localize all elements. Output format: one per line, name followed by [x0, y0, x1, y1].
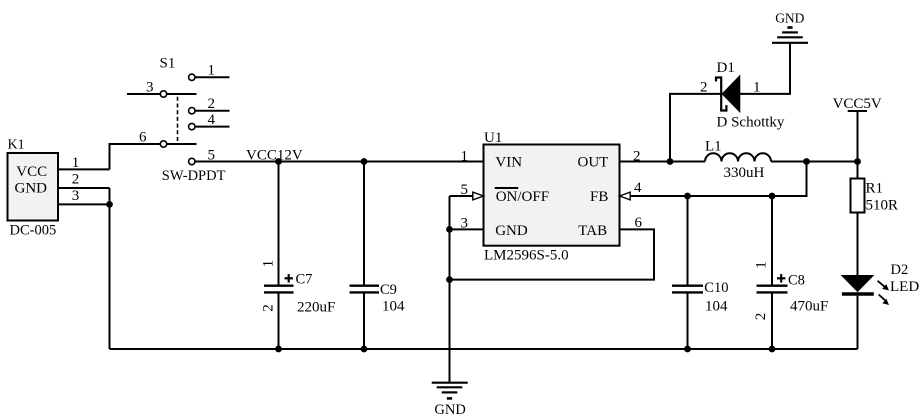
svg-text:2: 2 [72, 172, 80, 188]
wire U1 pin 6 TAB return [450, 215, 655, 280]
svg-text:3: 3 [461, 216, 469, 232]
svg-text:VIN: VIN [495, 154, 522, 170]
resistor R1 [851, 162, 899, 276]
wire L1 to VCC5V node [771, 161, 858, 163]
svg-text:GND: GND [775, 10, 804, 25]
capacitor C10 [672, 196, 728, 349]
connector K1 box [8, 137, 59, 238]
node GND pin junction [446, 226, 453, 233]
K1 pin 2 [58, 172, 110, 188]
S1 pin 6 [160, 141, 166, 147]
wire ground rail [110, 348, 858, 350]
capacitor C9 [350, 162, 406, 350]
U1 pin 2 OUT wire [620, 149, 706, 165]
node K1 pin3 junction [106, 201, 113, 208]
node VCC5V / R1 [854, 158, 861, 165]
U1 pin 4 FB wire [620, 162, 807, 200]
wire K1 pin2/pin3 down to ground rail [109, 188, 111, 349]
node C8 bottom [769, 346, 776, 353]
S1 pin 3 [127, 93, 160, 95]
svg-text:5: 5 [461, 182, 469, 198]
svg-text:D2: D2 [891, 262, 909, 278]
svg-text:R1: R1 [866, 181, 884, 197]
S1 pin 5 [189, 158, 195, 164]
svg-text:OUT: OUT [578, 154, 609, 170]
svg-text:FB: FB [590, 189, 608, 205]
svg-text:L1: L1 [705, 139, 722, 155]
svg-text:C10: C10 [704, 280, 728, 296]
capacitor C8 [753, 196, 828, 349]
svg-text:TAB: TAB [578, 223, 607, 239]
node C10 top [684, 193, 691, 200]
node OUT/D1 junction [667, 158, 674, 165]
svg-text:3: 3 [72, 188, 80, 204]
node C8 top [769, 193, 776, 200]
ground symbol top [772, 10, 808, 43]
svg-text:D1: D1 [717, 60, 735, 76]
K1 pin 1 [58, 155, 110, 171]
node C7 top [275, 158, 282, 165]
S1 pin 1 [189, 74, 195, 80]
S1 pole lever upper [167, 93, 197, 95]
power flag VCC5V [833, 96, 882, 162]
S1 pin 2 [189, 108, 195, 114]
svg-text:104: 104 [705, 299, 728, 315]
S1 pin 4 [189, 123, 195, 129]
LED D2 [842, 262, 920, 349]
svg-text:330uH: 330uH [724, 165, 765, 181]
svg-text:GND: GND [434, 402, 465, 418]
svg-text:2: 2 [700, 80, 708, 96]
svg-text:LED: LED [890, 279, 919, 295]
svg-text:LM2596S-5.0: LM2596S-5.0 [484, 248, 569, 264]
svg-text:D Schottky: D Schottky [717, 115, 785, 131]
svg-text:220uF: 220uF [297, 300, 335, 316]
svg-text:4: 4 [208, 112, 216, 128]
svg-text:2: 2 [260, 304, 276, 312]
svg-text:4: 4 [634, 180, 642, 196]
svg-text:C9: C9 [380, 282, 397, 298]
capacitor C7 [260, 162, 335, 350]
svg-text:C7: C7 [296, 272, 313, 288]
node C9 top [361, 158, 368, 165]
svg-text:3: 3 [146, 80, 154, 96]
node C10 bottom [684, 346, 691, 353]
svg-text:VCC: VCC [16, 164, 47, 180]
U1 pin 3 wire [450, 216, 484, 232]
svg-text:U1: U1 [484, 130, 502, 146]
svg-text:S1: S1 [160, 56, 176, 72]
wire GND net vertical [449, 196, 451, 383]
svg-text:2: 2 [753, 313, 769, 321]
svg-text:1: 1 [753, 261, 769, 269]
svg-text:470uF: 470uF [790, 299, 828, 315]
node TAB return junction [446, 276, 453, 283]
svg-text:1: 1 [461, 149, 469, 165]
svg-text:VCC5V: VCC5V [833, 96, 882, 112]
svg-text:VCC12V: VCC12V [246, 148, 303, 164]
op-amp U1 box [484, 130, 620, 264]
svg-text:6: 6 [635, 215, 643, 231]
node C7 bottom [275, 346, 282, 353]
diode D1 [670, 43, 790, 162]
S1 linkage dashed [177, 97, 179, 142]
S1 pole lever lower [167, 143, 197, 145]
svg-text:GND: GND [15, 181, 48, 197]
svg-text:DC-005: DC-005 [10, 223, 57, 239]
svg-text:1: 1 [753, 80, 761, 96]
svg-text:ON/OFF: ON/OFF [496, 189, 549, 205]
svg-text:GND: GND [495, 223, 528, 239]
svg-text:1: 1 [260, 260, 276, 268]
svg-text:1: 1 [208, 63, 216, 79]
wire K1 pin1 riser to S1 pin6 [110, 144, 161, 169]
svg-text:2: 2 [633, 149, 641, 165]
svg-text:1: 1 [72, 155, 80, 171]
svg-text:2: 2 [208, 96, 216, 112]
svg-text:C8: C8 [788, 273, 805, 289]
node L1 out / FB riser [803, 158, 810, 165]
svg-text:104: 104 [382, 299, 405, 315]
switch S1 [127, 56, 230, 185]
ground symbol bottom [432, 383, 468, 418]
inductor L1 [705, 139, 771, 182]
svg-text:6: 6 [139, 130, 147, 146]
net VCC12V [195, 148, 484, 164]
K1 pin 3 [58, 188, 110, 204]
svg-text:SW-DPDT: SW-DPDT [162, 168, 226, 184]
svg-text:K1: K1 [8, 137, 25, 152]
svg-text:510R: 510R [866, 198, 899, 214]
node C9 bottom [361, 346, 368, 353]
U1 pin 5 wire [450, 182, 484, 200]
